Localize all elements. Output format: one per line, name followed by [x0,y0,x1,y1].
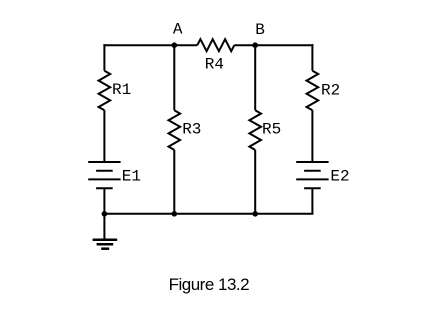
ground bar short [101,247,109,250]
junction dot bottom left (E1/ground) [102,211,108,217]
wire branch A upper (node A to R3) [173,45,175,110]
svg-text:R3: R3 [182,120,201,138]
wire bottom rail [103,213,313,215]
svg-text:R1: R1 [112,81,131,99]
wire right branch upper (corner to R2) [311,44,313,70]
ground bar middle [97,243,114,246]
wire branch A lower (R3 to bottom rail) [173,150,175,214]
resistor R4 [197,39,234,51]
battery E2 plate long bottom [296,178,328,180]
node B junction dot [252,42,258,48]
wire top rail from R4 through node B to right corner [234,44,313,46]
svg-text:R2: R2 [321,81,340,99]
svg-text:R5: R5 [262,120,281,138]
wire right branch between R2 and E2 [311,110,313,162]
wire left branch between R1 and E1 [103,110,105,162]
battery E1 plate short upper [96,170,113,172]
svg-text:R4: R4 [205,56,224,74]
battery E2 plate short lower [304,187,321,189]
svg-text:A: A [173,21,183,39]
battery E1 plate long top [88,161,120,163]
svg-text:E2: E2 [330,168,349,186]
ground bar long [93,239,118,242]
svg-text:B: B [255,21,265,39]
wire branch B upper (node B to R5) [254,45,256,110]
wire top rail from left corner through node A to R4 [103,44,197,46]
wire left branch upper (corner to R1) [103,44,105,70]
resistor R2 [307,71,319,111]
wire right branch between E2 and bottom rail [311,188,313,214]
svg-text:E1: E1 [122,167,141,185]
resistor R3 [169,110,181,150]
wire left branch between E1 and bottom rail [103,188,105,214]
junction dot bottom branch A [172,211,178,217]
junction dot bottom branch B [252,211,258,217]
battery E2 plate long top [296,161,328,163]
battery E1 plate short lower [96,187,113,189]
svg-text:Figure 13.2: Figure 13.2 [169,275,250,294]
battery E2 plate short upper [304,170,321,172]
wire branch B lower (R5 to bottom rail) [254,150,256,214]
battery E1 plate long bottom [88,178,120,180]
node A junction dot [172,42,178,48]
resistor R1 [99,71,111,111]
resistor R5 [249,110,261,150]
ground stub wire [103,214,105,240]
